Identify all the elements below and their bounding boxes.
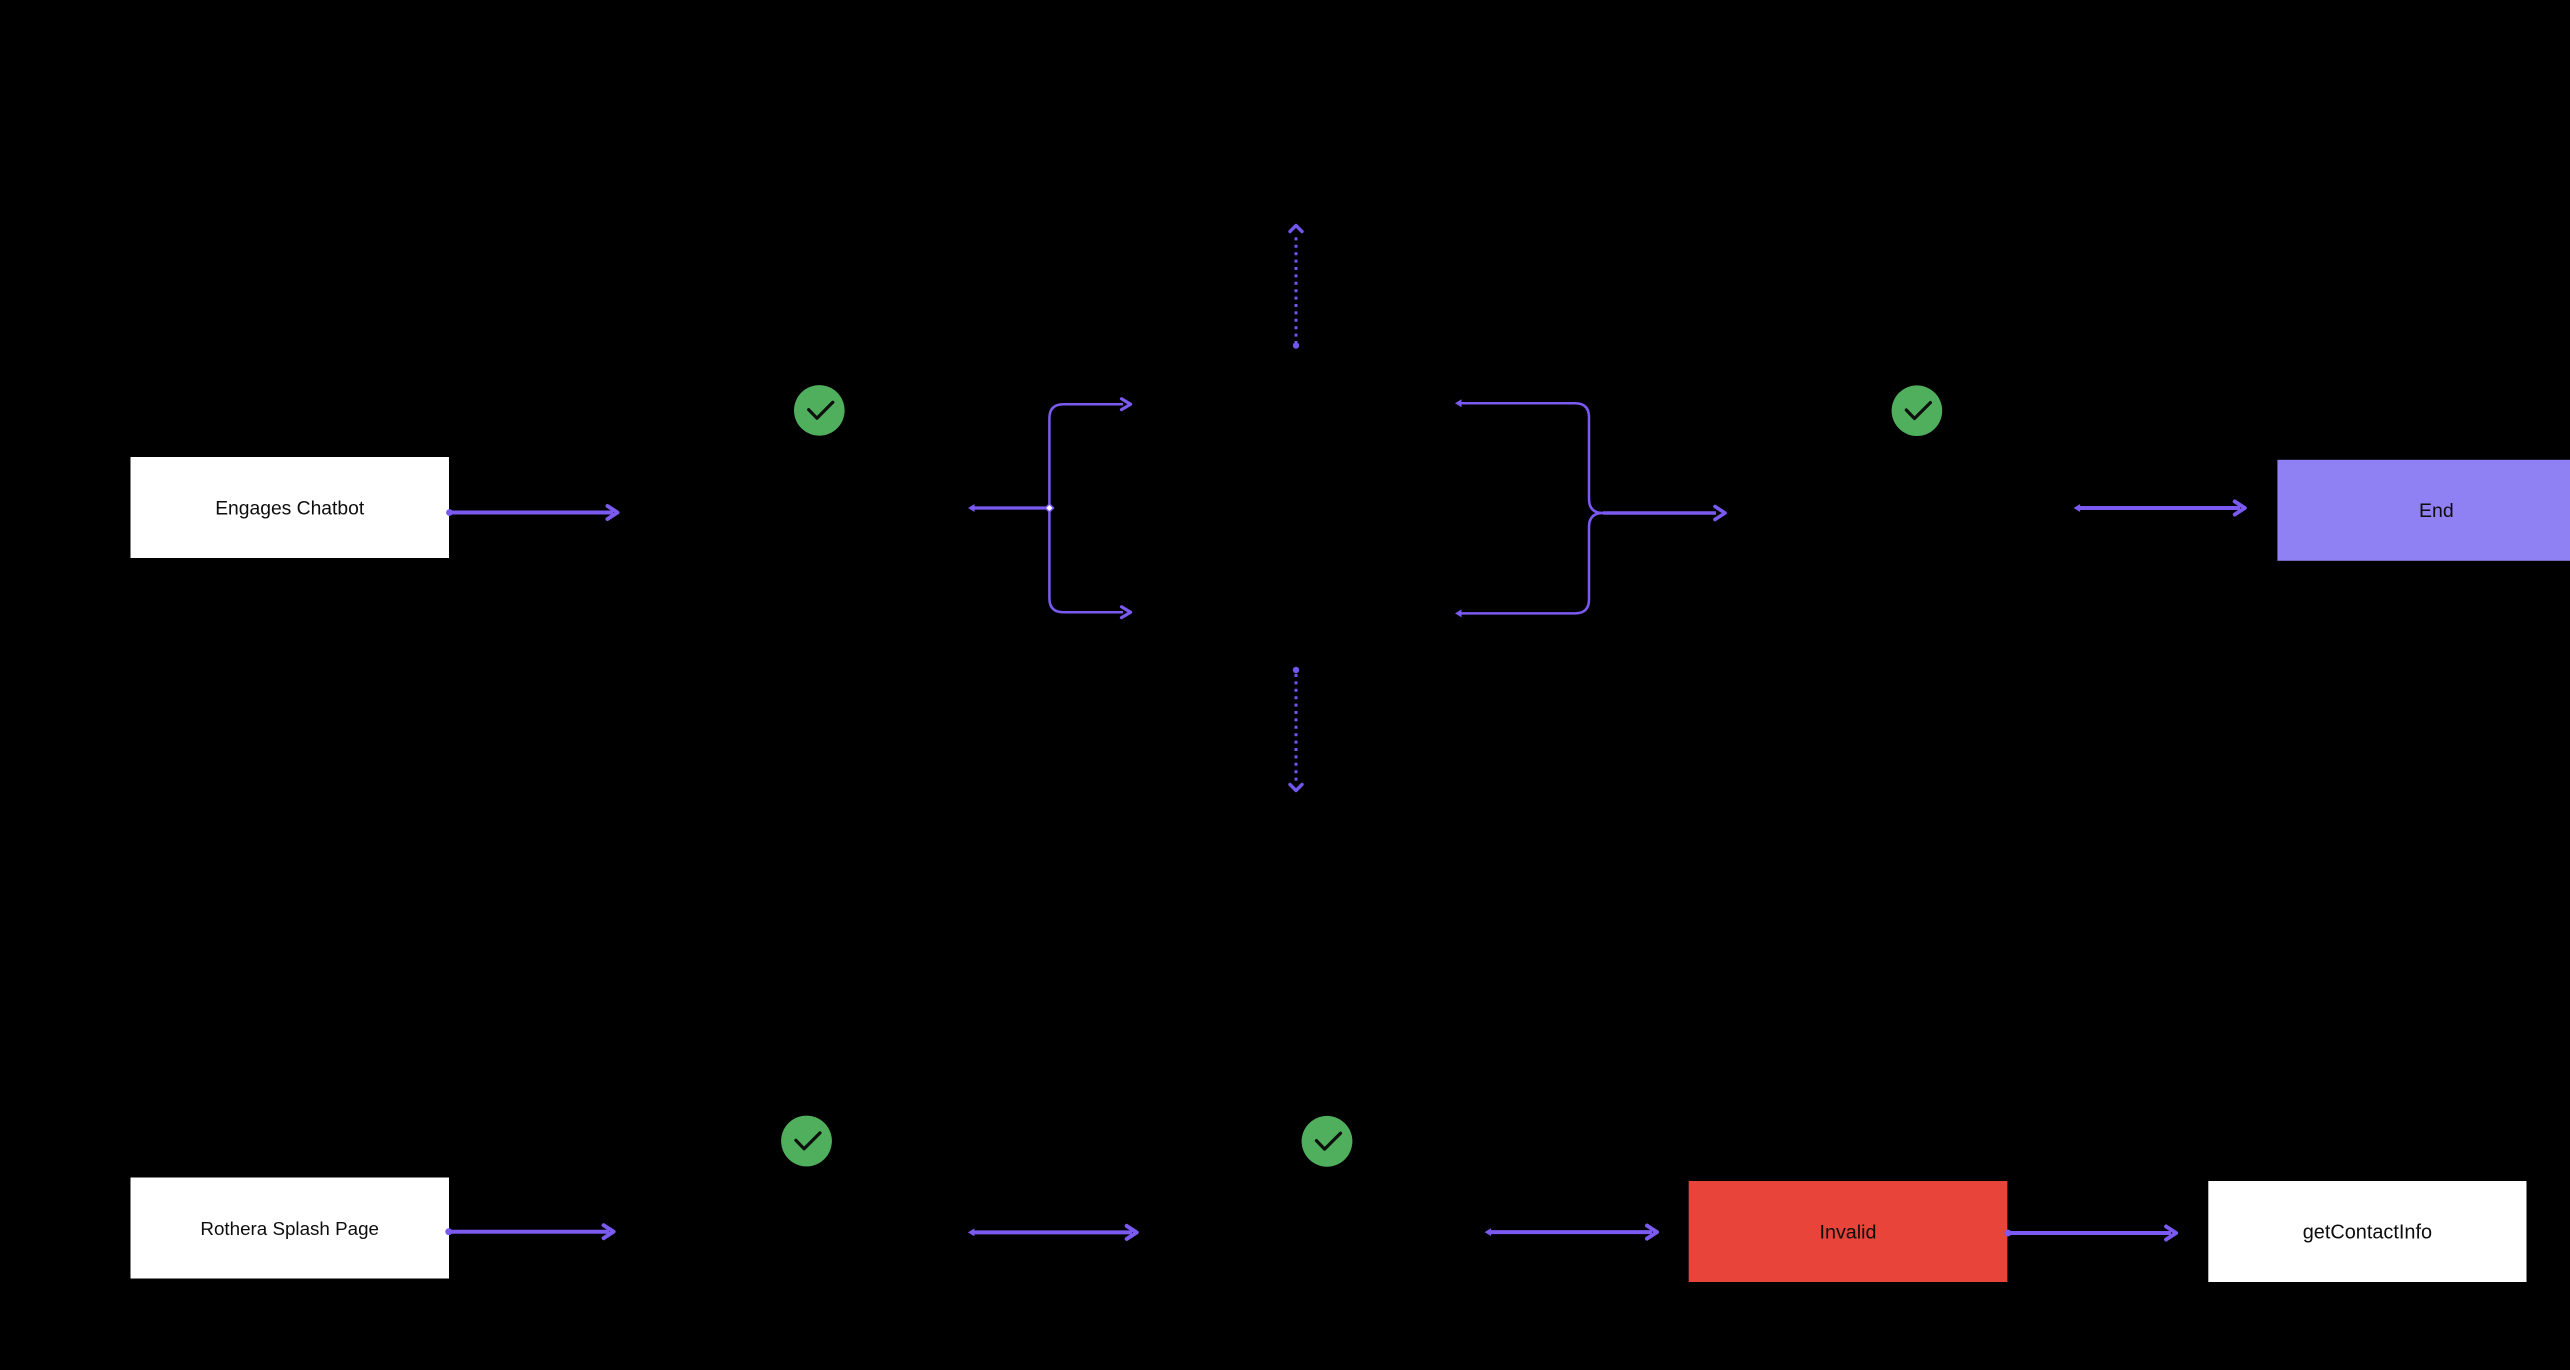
- check circle 2: [1892, 385, 1943, 436]
- wire into Invalid: [1485, 1226, 1657, 1239]
- wire to End: [2074, 502, 2245, 515]
- junction node diamond: [1045, 504, 1053, 512]
- wire split junction left arm: [968, 504, 1048, 512]
- wire Invalid to getContactInfo: [2005, 1227, 2177, 1240]
- check circle 1: [794, 385, 845, 436]
- svg-text:Rothera Splash Page: Rothera Splash Page: [200, 1218, 379, 1239]
- dashed arrow down: [1290, 667, 1302, 791]
- check circle 3: [781, 1116, 832, 1167]
- svg-text:Invalid: Invalid: [1820, 1222, 1877, 1244]
- wire Engages Chatbot to hidden node: [446, 506, 617, 519]
- wire merge brace bottom arm: [1455, 513, 1603, 617]
- node Engages Chatbot: [131, 457, 450, 558]
- wire double arrow bottom: [968, 1226, 1137, 1239]
- svg-text:Engages Chatbot: Engages Chatbot: [215, 499, 365, 520]
- wire Rothera to hidden node: [445, 1225, 613, 1238]
- wire split top branch: [1049, 399, 1130, 506]
- node getContactInfo: [2208, 1181, 2526, 1282]
- wire split bottom branch: [1049, 510, 1130, 618]
- svg-text:getContactInfo: getContactInfo: [2303, 1222, 2432, 1244]
- node End: [2277, 460, 2570, 561]
- dashed arrow up: [1290, 226, 1302, 349]
- node Invalid: [1689, 1181, 2008, 1282]
- check circle 4: [1302, 1116, 1353, 1167]
- svg-text:End: End: [2419, 500, 2454, 522]
- wire merge brace top arm: [1455, 399, 1603, 513]
- node Rothera Splash Page: [131, 1178, 450, 1279]
- wire merge brace output arrow: [1603, 507, 1725, 520]
